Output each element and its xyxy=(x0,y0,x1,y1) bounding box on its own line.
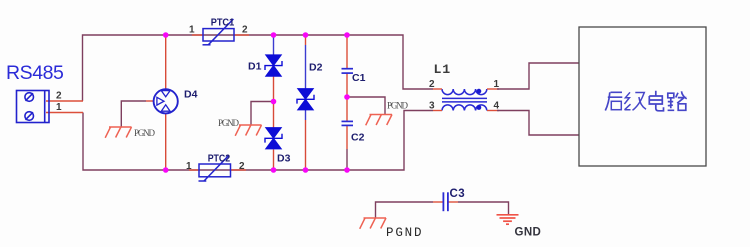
svg-text:1: 1 xyxy=(186,161,192,172)
wire top bus A-line xyxy=(83,35,434,101)
junction mid C1-C2 xyxy=(344,94,350,100)
wire pin2 stub of connector xyxy=(46,100,83,102)
svg-text:1: 1 xyxy=(189,25,195,36)
block: rear-stage circuit box xyxy=(579,27,706,166)
label D4 xyxy=(184,89,198,101)
wire L1 pin4 to block xyxy=(497,111,579,136)
svg-text:C1: C1 xyxy=(352,72,366,84)
label D1 xyxy=(248,61,262,73)
svg-text:3: 3 xyxy=(429,101,435,112)
wire C1 bottom pin xyxy=(346,73,348,97)
label PGND (bottom) xyxy=(386,226,422,240)
label PTC2 xyxy=(208,153,231,165)
svg-text:D2: D2 xyxy=(309,62,323,74)
junction bottom D3 xyxy=(271,167,277,173)
junction mid D1-D3 xyxy=(271,99,277,105)
capacitor C2 xyxy=(342,121,354,125)
wire D3 top pin xyxy=(273,102,275,128)
svg-text:D1: D1 xyxy=(248,61,262,73)
label C3 xyxy=(450,188,466,200)
label C2 xyxy=(351,132,365,144)
label C1 xyxy=(352,72,366,84)
wire pin1 stub of connector xyxy=(46,112,83,114)
svg-text:PGND: PGND xyxy=(387,101,409,111)
svg-text:PGND: PGND xyxy=(218,118,240,128)
svg-text:PTC1: PTC1 xyxy=(211,17,235,29)
wire D2 top pin xyxy=(305,35,307,89)
capacitor C3 xyxy=(443,192,448,211)
label D3 xyxy=(277,153,291,165)
wire middle PGND branch xyxy=(251,102,274,125)
TVS diode D1 xyxy=(265,55,282,76)
junction top D2 xyxy=(303,32,309,38)
TVS diode D3 xyxy=(265,128,282,149)
label PTC1 xyxy=(211,17,235,29)
wire mid PGND branch (right of C2) xyxy=(347,97,385,114)
svg-text:C2: C2 xyxy=(351,132,365,144)
TVS diode D2 xyxy=(297,89,314,110)
svg-text:PTC2: PTC2 xyxy=(208,153,231,165)
svg-text:RS485: RS485 xyxy=(6,62,64,84)
junction top C1 xyxy=(344,32,350,38)
svg-text:2: 2 xyxy=(56,91,62,102)
wire C2 top pin xyxy=(346,97,348,121)
pin number 3 (L1) xyxy=(429,101,435,112)
ground PGND (near L1) xyxy=(366,115,392,126)
svg-text:D3: D3 xyxy=(277,153,291,165)
svg-text:PGND: PGND xyxy=(134,128,156,138)
label D2 xyxy=(309,62,323,74)
wire D4 left pin to PGND xyxy=(121,101,154,127)
junction top D4 xyxy=(163,32,169,38)
wire bottom bus B-line xyxy=(83,111,433,171)
pin number 1 (L1) xyxy=(494,79,500,90)
svg-text:C3: C3 xyxy=(450,188,466,200)
wire C2 bottom pin xyxy=(346,125,348,170)
wire D4 bottom pin xyxy=(165,114,167,170)
pin number 2 (PTC2) xyxy=(239,161,245,172)
junction bottom D2 xyxy=(303,167,309,173)
svg-text:L1: L1 xyxy=(434,62,451,77)
svg-text:GND: GND xyxy=(515,227,542,239)
common-mode choke L1 xyxy=(442,89,487,111)
svg-text:1: 1 xyxy=(56,102,62,113)
gas discharge tube D4 xyxy=(154,89,178,113)
svg-text:2: 2 xyxy=(239,161,245,172)
svg-text:PGND: PGND xyxy=(386,226,422,240)
wire D4 top pin xyxy=(165,35,167,89)
label RS485 xyxy=(6,62,64,84)
pin number 1 (connector) xyxy=(56,102,62,113)
thermistor PTC1 xyxy=(192,19,249,45)
svg-text:2: 2 xyxy=(242,25,248,36)
pin number 2 (connector) xyxy=(56,91,62,102)
capacitor C1 xyxy=(342,69,354,73)
thermistor PTC2 xyxy=(189,155,246,181)
junction bottom D4 xyxy=(163,167,169,173)
wire L1 pin stubs xyxy=(433,89,499,111)
ground PGND (under D4) xyxy=(105,127,131,138)
wire C1 top pin xyxy=(346,35,348,69)
ground GND (earth) xyxy=(497,215,519,224)
label GND (bottom) xyxy=(515,227,542,239)
wire D1 top pin xyxy=(273,35,275,55)
label PGND (near L1) xyxy=(387,101,409,111)
wire D1 bottom pin xyxy=(273,76,275,102)
pin number 4 (L1) xyxy=(494,101,500,112)
lu xyxy=(668,93,675,110)
connector J1 (RS485 terminal block) xyxy=(17,91,50,123)
junction top D1 xyxy=(271,32,277,38)
label 后级电路 (rear-stage circuit) xyxy=(605,91,686,111)
wire D2 bottom pin xyxy=(305,108,307,170)
hou xyxy=(605,92,622,110)
wire L1 pin1 to block xyxy=(497,63,579,89)
wire C3 net (PGND to GND) xyxy=(376,202,434,218)
ground PGND (middle, near D3) xyxy=(235,125,261,136)
pin number 2 (PTC1) xyxy=(242,25,248,36)
pin number 1 (PTC2) xyxy=(186,161,192,172)
label L1 xyxy=(434,62,451,77)
ji xyxy=(624,92,630,110)
junction bottom C2 xyxy=(344,167,350,173)
pin number 1 (PTC1) xyxy=(189,25,195,36)
pin number 2 (L1) xyxy=(429,79,435,90)
label PGND (middle) xyxy=(218,118,240,128)
dian xyxy=(649,91,663,111)
svg-text:2: 2 xyxy=(429,79,435,90)
svg-text:D4: D4 xyxy=(184,89,198,101)
ground PGND (bottom) xyxy=(360,218,386,229)
label PGND (under D4) xyxy=(134,128,156,138)
wire D3 bottom pin xyxy=(273,150,275,171)
